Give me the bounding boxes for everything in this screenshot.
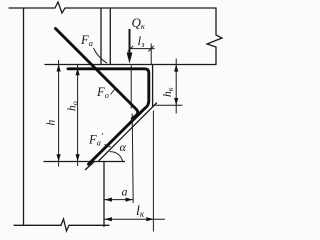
reinforcement bar Fa loop (top bar, bend at face, inclined return): [68, 69, 149, 164]
dim a: [104, 198, 133, 202]
bar end tick: [85, 162, 94, 170]
right break line: [207, 8, 222, 64]
label alpha: [105, 145, 111, 148]
alpha arc: [110, 152, 123, 161]
dim lk: [104, 111, 165, 232]
corbel seat top line: [45, 64, 216, 66]
dim l3: [128, 44, 155, 65]
svg-text:h: h: [46, 120, 58, 126]
dim h0: [76, 64, 80, 166]
corbel outer face: [152, 65, 154, 108]
column right edge above corbel: [100, 8, 102, 65]
lk right extension: [152, 111, 154, 232]
alpha base aux line: [44, 161, 125, 163]
bottom break line: [14, 219, 109, 231]
corbel inclined face: [99, 103, 157, 161]
svg-text:a: a: [122, 185, 128, 199]
force Qk arrow: [129, 29, 131, 54]
top chord line with break: [9, 2, 216, 13]
beam end face: [109, 8, 111, 65]
left column edge: [23, 8, 25, 225]
dim hk: [154, 59, 183, 114]
load extension line: [131, 66, 133, 204]
column right edge below corbel: [103, 162, 105, 227]
dim h: [57, 60, 61, 167]
bent bar Fo diagonal: [56, 29, 138, 119]
svg-text:α: α: [120, 140, 127, 154]
